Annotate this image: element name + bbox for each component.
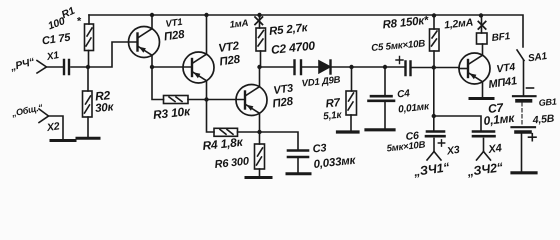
svg-text:4,5В: 4,5В xyxy=(531,113,555,127)
svg-text:30к: 30к xyxy=(95,101,115,115)
svg-text:BF1: BF1 xyxy=(491,31,511,44)
svg-text:5,1к: 5,1к xyxy=(323,110,343,123)
svg-text:VT1: VT1 xyxy=(165,17,183,30)
svg-text:C4: C4 xyxy=(397,88,411,100)
svg-text:C3: C3 xyxy=(312,142,327,155)
svg-text:X4: X4 xyxy=(487,142,503,156)
svg-text:X2: X2 xyxy=(45,120,60,134)
svg-text:GB1: GB1 xyxy=(538,96,557,108)
svg-text:X1: X1 xyxy=(45,50,60,63)
svg-text:1мА: 1мА xyxy=(229,18,249,31)
svg-text:X3: X3 xyxy=(445,144,460,158)
svg-text:R7: R7 xyxy=(325,97,341,111)
